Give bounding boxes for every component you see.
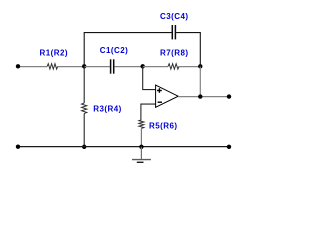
wire: node C down to output: [199, 67, 201, 97]
wire: input terminal to R1: [18, 66, 47, 68]
ground symbol: [140, 147, 142, 160]
op-amp minus pin mark: [158, 101, 162, 103]
node: output terminal dot: [227, 94, 231, 98]
resistor R5: [139, 120, 144, 129]
node B junction dot: [141, 64, 145, 68]
wire: bottom rail: [18, 146, 229, 148]
wire: R3 branch node A down: [83, 67, 85, 103]
node C junction dot: [198, 64, 202, 68]
wire: C1 to node B: [114, 66, 142, 68]
op-amp plus pin mark: [157, 90, 162, 92]
resistor R1: [47, 64, 58, 69]
wire: R7 to node C: [179, 66, 200, 68]
wire: C3 feedback loop right vertical: [199, 33, 201, 67]
node: R3 bottom junction dot: [82, 145, 86, 149]
svg-text:R1(R2): R1(R2): [40, 48, 68, 57]
svg-text:C1(C2): C1(C2): [100, 46, 128, 55]
capacitor C3: [171, 25, 173, 39]
wire: R1 to node A: [58, 66, 84, 68]
wire: C3 feedback loop left vertical: [83, 33, 85, 67]
wire: R3 to bottom rail: [83, 114, 85, 147]
node: ground junction dot: [139, 145, 143, 149]
wire: R5 to ground junction: [140, 128, 142, 146]
capacitor C1: [110, 59, 112, 73]
svg-text:C3(C4): C3(C4): [160, 12, 188, 21]
wire: node A to C1: [84, 66, 110, 68]
svg-text:R7(R8): R7(R8): [160, 48, 188, 57]
wire: op-amp output: [178, 96, 229, 98]
node A junction dot: [82, 64, 86, 68]
wire: node B down to plus input: [143, 67, 156, 90]
node: bottom left terminal dot: [16, 145, 20, 149]
resistor R3: [82, 103, 87, 114]
resistor R7: [168, 64, 179, 69]
node: bottom right terminal dot: [227, 145, 231, 149]
node: input terminal dot: [16, 64, 20, 68]
svg-text:R5(R6): R5(R6): [149, 121, 177, 130]
wire: node B to R7: [143, 66, 168, 68]
op-amp U1: [156, 85, 179, 107]
wire: C3 feedback loop top left: [84, 32, 172, 34]
svg-text:R3(R4): R3(R4): [93, 105, 121, 114]
node: output junction dot: [198, 94, 202, 98]
wire: C3 feedback loop top right: [176, 32, 201, 34]
wire: minus input to R5: [141, 104, 156, 120]
